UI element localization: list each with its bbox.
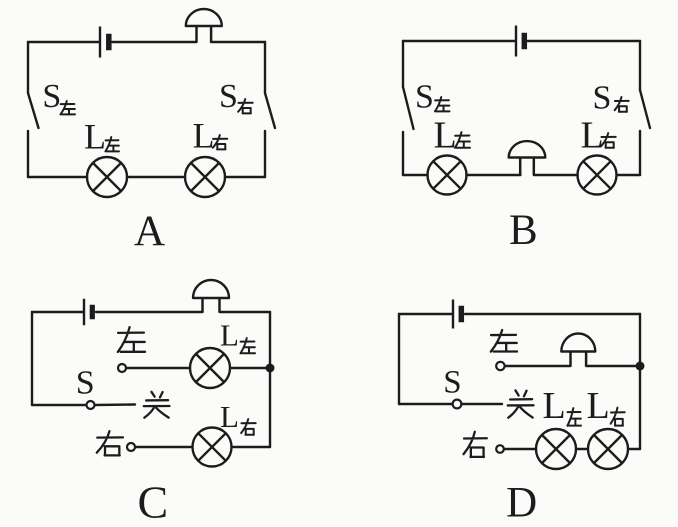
wire contact to lamp (D) [504, 448, 536, 450]
label 关 off-position (C) [144, 392, 170, 418]
svg-text:A: A [134, 208, 165, 255]
wire left side upper (B) [402, 41, 404, 87]
wire right side lower (A) [264, 131, 266, 177]
wire top-left (D) [399, 313, 452, 315]
wire top-left (C) [32, 311, 83, 313]
svg-text:L: L [581, 115, 604, 157]
lamp L右 (D) [588, 429, 628, 469]
svg-text:D: D [506, 479, 537, 526]
wire right side (D) [639, 314, 641, 449]
wire bell to lamp (B) [534, 174, 578, 176]
switch S左 lever (A) [28, 93, 39, 128]
battery (C) [84, 299, 95, 326]
svg-text:B: B [509, 207, 538, 254]
lamp L左 (D) [536, 429, 576, 469]
label 关 off-position (D) [508, 390, 534, 417]
wire to switch pivot (C) [32, 404, 87, 406]
switch S右 lever (A) [265, 93, 275, 128]
svg-text:C: C [137, 477, 168, 527]
contact 右 terminal (D) [496, 445, 504, 453]
bell (A) [186, 9, 222, 42]
wire bottom-left (B) [403, 174, 428, 176]
switch S左 lever (B) [403, 87, 414, 129]
battery (B) [516, 26, 527, 57]
lamp L左 (B) [428, 156, 467, 195]
svg-text:L: L [434, 115, 457, 157]
wire left side (D) [398, 314, 400, 404]
svg-text:S: S [42, 78, 61, 115]
label 左 contact (C) [118, 327, 145, 352]
wire lamp to node (C) [230, 367, 270, 369]
wire top-left (B) [403, 40, 515, 42]
wire bell to top-right corner (C) [220, 311, 271, 313]
wire bell to node (D) [586, 365, 640, 367]
wire bottom-left (A) [28, 176, 87, 178]
wire lamp to right side (C) [232, 446, 271, 448]
svg-text:L: L [543, 385, 566, 427]
wire right side upper (A) [264, 42, 266, 93]
wire lamp to bell (B) [467, 174, 521, 176]
wire right side lower (B) [639, 131, 641, 175]
battery (D) [453, 300, 464, 329]
lamp L左 (C) [190, 348, 230, 388]
svg-text:S: S [593, 80, 612, 117]
wire contact to bell (D) [505, 365, 571, 367]
switch S pivot (D) [453, 400, 462, 409]
node junction dot (C) [266, 364, 275, 373]
bell (D) [561, 334, 595, 367]
wire left side lower (B) [402, 132, 404, 175]
svg-text:S: S [76, 365, 95, 402]
switch S pivot (C) [87, 401, 95, 409]
svg-text:L: L [193, 116, 215, 156]
lamp L右 (A) [185, 157, 225, 197]
wire battery to bell (A) [112, 41, 197, 43]
switch S lever pointing at 关 (C) [95, 403, 135, 406]
svg-text:L: L [587, 385, 610, 427]
wire bottom-right (A) [225, 176, 265, 178]
contact 左 terminal (C) [118, 364, 126, 372]
wire between lamps (D) [576, 448, 588, 450]
contact 左 terminal (D) [496, 362, 504, 370]
wire left side lower (A) [27, 131, 29, 177]
svg-text:S: S [415, 79, 434, 116]
wire between lamps (A) [127, 176, 185, 178]
node junction dot (D) [636, 362, 645, 371]
label 左 contact (D) [491, 330, 517, 351]
svg-text:L: L [220, 318, 239, 353]
wire left side upper (A) [27, 42, 29, 93]
wire top-right (D) [465, 313, 640, 315]
wire lamp to right side (D) [628, 448, 640, 450]
bell (B) [509, 141, 546, 175]
wire to switch pivot (D) [399, 403, 453, 405]
switch S lever pointing at 关 (D) [462, 403, 502, 405]
wire contact to lamp (C) [135, 446, 192, 448]
wire top-left (A) [28, 41, 99, 43]
wire right side (C) [269, 312, 271, 447]
battery (A) [100, 27, 112, 58]
svg-text:L: L [220, 399, 239, 434]
wire top-right (B) [528, 40, 641, 42]
wire right side upper (B) [639, 41, 641, 90]
bell (C) [193, 280, 229, 312]
wire battery to bell (C) [96, 311, 203, 313]
lamp L右 (B) [578, 156, 617, 195]
lamp L左 (A) [87, 157, 127, 197]
svg-text:S: S [219, 78, 238, 115]
wire left side (C) [31, 312, 33, 405]
wire contact to lamp (C) [126, 367, 190, 369]
contact 右 terminal (C) [127, 443, 135, 451]
label 右 contact (C) [97, 431, 123, 455]
wire bottom-right (B) [617, 174, 641, 176]
svg-text:L: L [84, 117, 106, 157]
svg-text:S: S [443, 365, 461, 401]
switch S右 lever (B) [640, 90, 650, 128]
label 右 contact (D) [464, 432, 487, 457]
wire bell to top-right corner (A) [211, 41, 265, 43]
lamp L右 (C) [193, 428, 232, 467]
